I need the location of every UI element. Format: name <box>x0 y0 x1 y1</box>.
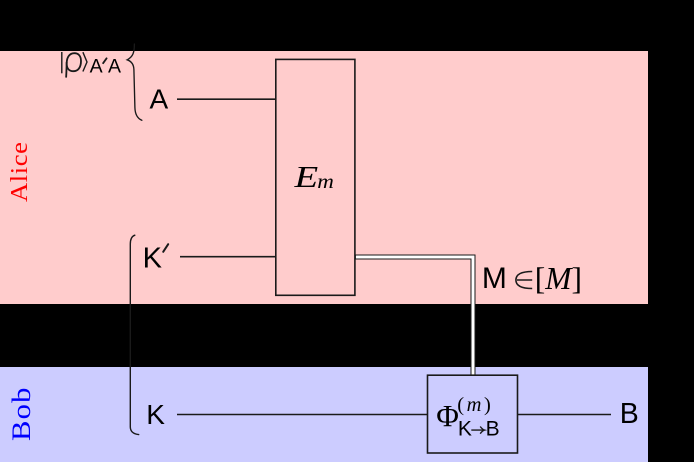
svg-text:Φ: Φ <box>436 398 459 433</box>
brace for rho state (A'A group) <box>127 44 142 120</box>
Bob band <box>0 367 648 462</box>
svg-text:K: K <box>143 242 163 274</box>
svg-text:A: A <box>108 56 121 78</box>
svg-text:E: E <box>293 160 318 194</box>
svg-text:A: A <box>150 84 169 115</box>
classical double wire M <box>355 257 473 375</box>
element-of symbol <box>516 272 532 289</box>
svg-text:A: A <box>90 56 103 78</box>
wire A <box>177 98 276 100</box>
Alice band <box>0 51 648 304</box>
svg-text:B: B <box>620 398 639 430</box>
svg-text:Bob: Bob <box>8 386 36 441</box>
wire B <box>518 414 612 416</box>
ket label |rho> <box>61 52 63 73</box>
box Phi <box>428 375 518 453</box>
svg-text:M: M <box>482 262 507 295</box>
svg-text:K: K <box>146 399 165 430</box>
brace for K'K group <box>130 235 138 434</box>
wire K' <box>180 256 276 258</box>
svg-text:B: B <box>486 418 500 441</box>
svg-text:(m): (m) <box>457 394 493 416</box>
svg-text:[M]: [M] <box>535 261 582 296</box>
box E_m <box>276 59 355 295</box>
svg-text:m: m <box>317 170 334 192</box>
svg-text:K: K <box>458 418 472 441</box>
svg-text:Alice: Alice <box>6 142 33 202</box>
wire K <box>177 414 428 416</box>
